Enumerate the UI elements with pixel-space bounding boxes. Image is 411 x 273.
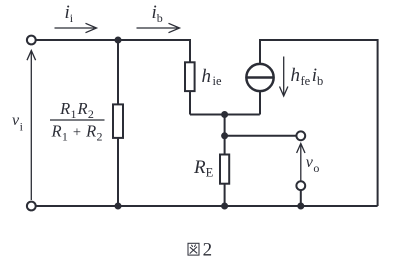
wire node B horizontal [190,114,260,116]
terminal output bottom v_o- [296,181,305,190]
svg-text:vo: vo [306,154,320,175]
svg-text:vi: vi [12,112,24,134]
svg-text:RE: RE [193,157,214,179]
terminal input bottom [27,202,36,211]
wire node E vertical [224,115,226,136]
wire top rail right [259,39,378,41]
wire h_ie top lead [189,39,191,62]
arrow v_o [297,144,305,181]
terminal input top [27,36,36,45]
label fraction bar [50,119,105,121]
current source h_fe·i_b [246,64,273,91]
junction bottom rail left [115,203,122,210]
resistor h_ie [185,62,195,91]
wire R1R2 bottom lead [117,138,119,206]
wire h_ie bottom lead [189,91,191,114]
svg-text:R1R2: R1R2 [59,99,94,121]
wire current source bottom lead [259,92,261,115]
wire node E to output terminal [225,135,297,137]
junction node E2 [221,132,228,139]
resistor R_E [220,155,229,184]
wire R_E bottom lead [224,184,226,206]
svg-text:hfeib: hfeib [291,65,324,88]
wire top rail left [36,39,190,41]
wire R1R2 top lead [117,40,119,104]
junction node top (base divider) [115,37,122,44]
terminal output top v_o+ [296,131,305,140]
arrow h_fe·i_b [280,57,288,97]
resistor R1R2/(R1+R2) [113,104,123,137]
wire R_E top lead [224,136,226,155]
svg-text:hie: hie [202,66,222,88]
junction bottom rail mid [221,203,228,210]
arrow i_b [137,23,180,32]
wire bottom rail [36,205,378,207]
caption 図 glyph [188,243,199,255]
svg-text:ii: ii [65,2,74,25]
wire current source top lead [259,40,261,64]
junction node E1 [221,111,228,118]
svg-text:ib: ib [152,2,163,25]
svg-text:R1+R2: R1+R2 [51,122,103,144]
arrow v_i [27,51,36,201]
wire output bottom lead [300,190,302,206]
svg-text:2: 2 [203,239,213,260]
wire right side [377,39,379,206]
junction bottom rail right [297,203,304,210]
arrow i_i [55,23,97,32]
